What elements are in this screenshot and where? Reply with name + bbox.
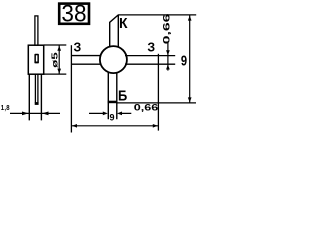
svg-text:0,66: 0,66 [134, 103, 159, 113]
svg-text:ø5: ø5 [51, 52, 60, 67]
svg-text:З: З [147, 40, 155, 54]
svg-text:38: 38 [61, 0, 86, 27]
svg-text:0,66: 0,66 [161, 14, 172, 45]
svg-text:К: К [119, 16, 128, 33]
svg-text:Б: Б [118, 88, 127, 104]
svg-text:9: 9 [109, 112, 114, 122]
svg-text:З: З [74, 40, 82, 54]
svg-text:9: 9 [181, 52, 187, 69]
svg-text:1,8: 1,8 [1, 104, 10, 112]
